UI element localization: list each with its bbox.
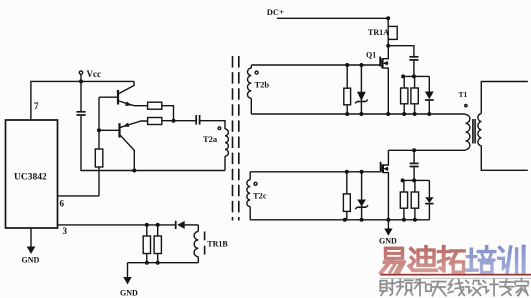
svg-text:7: 7 (34, 101, 39, 111)
svg-text:T2c: T2c (253, 190, 267, 200)
svg-text:TR1B: TR1B (207, 239, 228, 248)
svg-text:GND: GND (120, 289, 138, 298)
svg-text:DC+: DC+ (267, 7, 284, 17)
svg-text:T2b: T2b (255, 80, 270, 90)
svg-text:UC3842: UC3842 (14, 173, 47, 183)
svg-text:Q1: Q1 (366, 50, 376, 59)
svg-text:GND: GND (22, 256, 40, 265)
svg-text:3: 3 (63, 226, 68, 236)
svg-text:T1: T1 (459, 90, 468, 99)
svg-text:Vcc: Vcc (87, 69, 102, 79)
svg-text:6: 6 (60, 199, 65, 209)
svg-text:GND: GND (379, 237, 397, 246)
svg-text:T2a: T2a (203, 134, 218, 144)
svg-text:TR1A: TR1A (368, 28, 389, 37)
